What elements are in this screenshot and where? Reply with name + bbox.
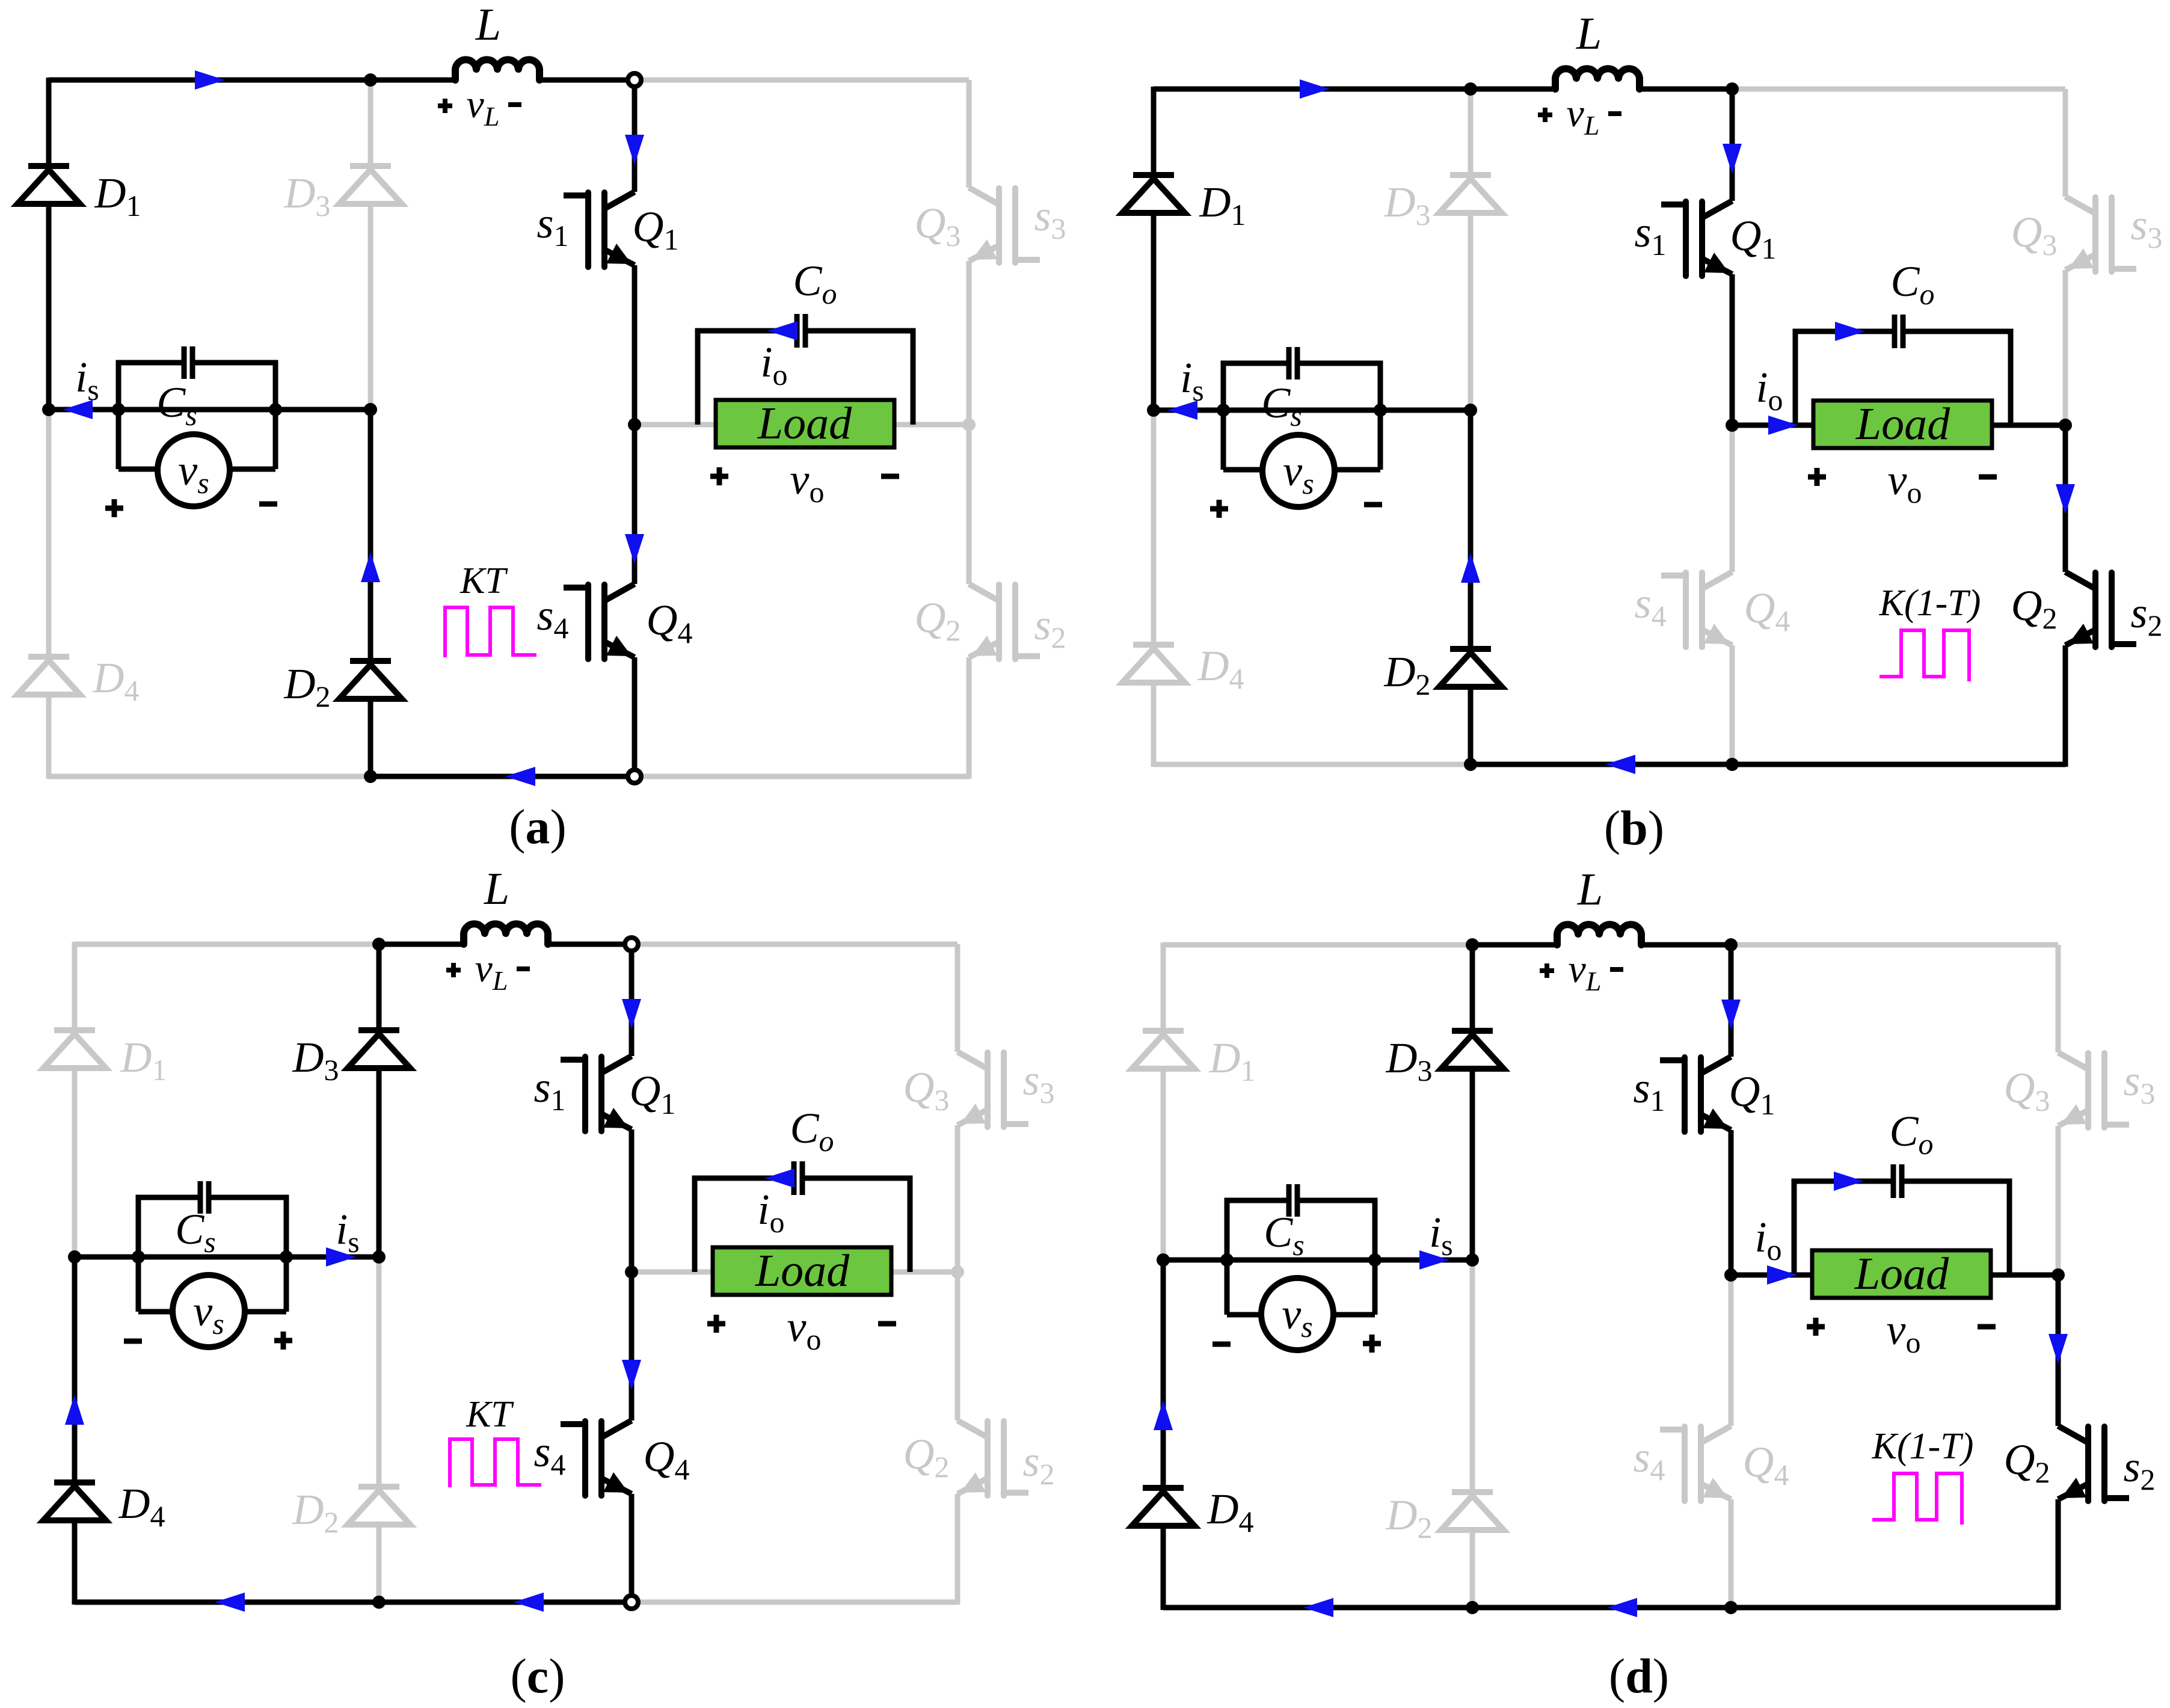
wire Q4-to-bottom (d) xyxy=(1729,1499,1734,1608)
wire mid column lower (d) xyxy=(1470,1260,1475,1492)
current arrow Q4 (c) xyxy=(622,1360,641,1390)
current arrow D4 branch (d) xyxy=(1154,1400,1173,1430)
label minus vo (c) xyxy=(878,1321,896,1327)
wire bottom rail right (b) xyxy=(1471,762,2065,767)
junction node (d) 0 xyxy=(1466,938,1479,951)
wire top-left rail (d) xyxy=(1163,942,1472,948)
label minus (c) xyxy=(124,1339,142,1344)
wire load-node-to-Q4 (b) xyxy=(1730,425,1735,572)
gate waveform KT (c) xyxy=(450,1439,541,1487)
wire top-left rail (c) xyxy=(75,942,379,947)
current arrow Co (b) xyxy=(1835,322,1865,341)
wire right rail mid (a) xyxy=(967,261,972,425)
diode D2 (d) xyxy=(1441,1492,1504,1530)
label plus vo (b) xyxy=(1808,468,1826,486)
svg-text:(d): (d) xyxy=(1609,1648,1669,1703)
wire top-left rail (a) xyxy=(49,78,370,83)
diode D1 (c) xyxy=(43,1030,106,1068)
wire mid column lower (c) xyxy=(377,1257,382,1487)
diode D2 (a) xyxy=(339,661,402,699)
wire inductor-to-Q1 (d) xyxy=(1642,942,1731,948)
svg-text:L: L xyxy=(475,0,501,50)
transistor Q3 (c) xyxy=(957,1052,1025,1127)
capacitor Co loop (b) xyxy=(1795,331,1892,425)
diode D2 (b) xyxy=(1439,649,1502,687)
junction node (d) 4 xyxy=(1466,1253,1479,1267)
svg-text:(b): (b) xyxy=(1604,800,1664,855)
diode D3 (b) xyxy=(1439,175,1502,213)
junction node (d) 2 xyxy=(1220,1253,1234,1267)
current arrow io (a) xyxy=(767,321,798,340)
junction node (c) 7 xyxy=(951,1265,964,1279)
junction node (d) 7 xyxy=(1724,938,1738,951)
svg-text:Load: Load xyxy=(757,398,852,449)
label minus (d) xyxy=(1213,1342,1231,1347)
wire bottom rail left (a) xyxy=(49,774,370,779)
voltage source vs (b) xyxy=(1221,410,1226,470)
current arrow is (c) xyxy=(326,1247,356,1267)
transistor Q4 (a) xyxy=(567,584,635,659)
junction node (d) 3 xyxy=(1368,1253,1382,1267)
svg-text:Load: Load xyxy=(755,1246,850,1296)
gate waveform K(1-T) (b) xyxy=(1880,630,1969,681)
current arrow bottom mid (d) xyxy=(1607,1598,1637,1617)
current arrow bottom mid (c) xyxy=(514,1593,544,1612)
wire source row (b) xyxy=(1154,408,1471,413)
diode D3 (a) xyxy=(339,166,402,204)
wire Q2-to-bottom (d) xyxy=(2056,1499,2061,1610)
voltage source vs (d) xyxy=(1225,1260,1230,1315)
wire Q4-to-bottom (a) xyxy=(632,657,638,776)
svg-text:KT: KT xyxy=(460,561,508,601)
diode D1 (d) xyxy=(1132,1031,1194,1069)
wire top-right rail (d) xyxy=(1731,942,2058,948)
transistor Q2 (a) xyxy=(969,584,1037,659)
junction node (a) 7 xyxy=(962,418,976,431)
current arrow io (b) xyxy=(1768,416,1798,435)
junction node (c) 3 xyxy=(280,1250,293,1264)
transistor Q3 (d) xyxy=(2058,1052,2126,1128)
current arrow Q1 (c) xyxy=(622,999,641,1029)
junction node (b) 5 xyxy=(1464,758,1477,771)
transistor Q4 (c) xyxy=(564,1421,632,1496)
wire left rail upper (a) xyxy=(46,78,52,166)
wire bottom rail left (c) xyxy=(75,1600,632,1605)
junction node (b) 4 xyxy=(1464,404,1477,417)
wire Q4-to-bottom (b) xyxy=(1730,645,1735,764)
current arrow D2 (b) xyxy=(1461,553,1480,583)
wire right rail top (d) xyxy=(2056,945,2061,1052)
wire load right stub (b) xyxy=(1992,423,2065,428)
wire Q1 leg upper (c) xyxy=(629,944,635,1056)
svg-text:(c): (c) xyxy=(510,1648,565,1703)
junction node (b) 9 xyxy=(2059,419,2072,432)
junction node (c) 1 xyxy=(68,1250,81,1264)
junction node (a) 2 xyxy=(112,403,125,416)
gate waveform K(1-T) (d) xyxy=(1872,1473,1962,1525)
label plus (c) xyxy=(274,1332,292,1350)
wire source row (d) xyxy=(1163,1258,1472,1263)
load box (b) xyxy=(1813,401,1992,448)
junction node (b) 6 xyxy=(1726,419,1739,432)
current arrow top rail (a) xyxy=(195,70,225,90)
load box (d) xyxy=(1812,1250,1991,1298)
load box (c) xyxy=(713,1247,891,1295)
wire load left stub (a) xyxy=(635,422,716,428)
current arrow Q4 (a) xyxy=(625,534,644,564)
wire left rail upper (d) xyxy=(1161,942,1166,1031)
wire bottom rail right (c) xyxy=(632,1600,957,1605)
wire Q1-to-load node (d) xyxy=(1729,1130,1734,1275)
current arrow is (d) xyxy=(1419,1250,1449,1270)
wire load-node-to-Q4 (a) xyxy=(632,425,638,584)
wire bottom rail (d) xyxy=(1163,1605,2058,1611)
transistor Q1 (b) xyxy=(1664,201,1732,276)
wire Q1-to-load node (c) xyxy=(629,1129,635,1272)
transistor Q2 (c) xyxy=(957,1421,1025,1496)
open node (c) 1 xyxy=(625,1596,638,1609)
current arrow Q2 (d) xyxy=(2049,1334,2068,1364)
wire source row (a) xyxy=(49,407,370,413)
current arrow bottom left (c) xyxy=(215,1593,245,1612)
junction node (b) 3 xyxy=(1374,404,1387,417)
diode D4 (d) xyxy=(1132,1488,1194,1526)
junction node (b) 8 xyxy=(1726,758,1739,771)
inductor L (a) xyxy=(455,60,539,80)
transistor Q1 (d) xyxy=(1663,1057,1731,1132)
wire Q1 leg upper (a) xyxy=(632,80,638,192)
wire top mid-to-inductor (a) xyxy=(370,78,455,83)
capacitor Co loop (a) xyxy=(698,331,795,425)
transistor Q3 (b) xyxy=(2065,197,2133,272)
inductor L (c) xyxy=(464,924,548,944)
wire left rail lower (b) xyxy=(1151,410,1157,645)
diode D1 (a) xyxy=(17,166,80,204)
wire mid column lower (a) xyxy=(368,410,373,661)
wire load right stub (d) xyxy=(1991,1273,2058,1278)
svg-text:L: L xyxy=(1576,8,1602,59)
current arrow D4 branch (c) xyxy=(65,1395,84,1425)
current arrow is (a) xyxy=(63,400,93,419)
capacitor Co loop (d) xyxy=(1794,1181,1891,1275)
diode D4 (a) xyxy=(17,657,80,695)
wire load-node-to-Q4 (c) xyxy=(629,1272,635,1421)
transistor Q2 (d) xyxy=(2058,1426,2126,1501)
wire top-right rail (c) xyxy=(632,942,957,947)
junction node (d) 9 xyxy=(2052,1268,2065,1282)
wire inductor-to-Q1 (b) xyxy=(1640,87,1732,92)
label minus (b) xyxy=(1364,502,1382,508)
label plus vo (c) xyxy=(707,1315,725,1333)
wire right rail lower (d) xyxy=(2056,1275,2061,1426)
voltage source vs (c) xyxy=(136,1257,141,1312)
wire load-node-to-Q4 (d) xyxy=(1729,1275,1734,1426)
wire Q2-to-bottom (b) xyxy=(2063,645,2068,767)
junction node (a) 0 xyxy=(364,73,377,87)
current arrow bottom mid (a) xyxy=(505,767,535,786)
junction node (a) 6 xyxy=(628,418,641,431)
junction node (c) 5 xyxy=(372,1596,386,1609)
wire top mid-to-inductor (b) xyxy=(1471,87,1555,92)
svg-text:K(1-T): K(1-T) xyxy=(1879,583,1981,624)
wire Q1 leg upper (b) xyxy=(1730,89,1735,201)
wire Q1 leg upper (d) xyxy=(1729,945,1734,1057)
label minus vo (b) xyxy=(1979,475,1997,480)
junction node (a) 4 xyxy=(364,403,377,416)
svg-text:K(1-T): K(1-T) xyxy=(1872,1426,1974,1467)
svg-text:(a): (a) xyxy=(509,799,567,854)
wire mid column lower (b) xyxy=(1468,410,1474,649)
wire right rail lower (c) xyxy=(955,1272,961,1421)
junction node (a) 5 xyxy=(364,770,377,783)
svg-text:KT: KT xyxy=(466,1394,514,1435)
transistor Q4 (b) xyxy=(1664,572,1732,647)
wire bottom rail right (a) xyxy=(635,774,969,779)
wire Q2-to-bottom (a) xyxy=(967,657,972,779)
wire right rail lower (a) xyxy=(967,425,972,584)
wire top-right rail (a) xyxy=(635,78,969,83)
label plus (d) xyxy=(1363,1335,1381,1353)
junction node (c) 6 xyxy=(625,1265,638,1279)
label plus (b) xyxy=(1210,500,1228,518)
label vL (c) xyxy=(446,963,461,977)
junction node (b) 7 xyxy=(1726,82,1739,96)
wire top mid-to-inductor (d) xyxy=(1472,942,1557,948)
current arrow io (d) xyxy=(1767,1265,1797,1285)
label vL (a) xyxy=(438,99,452,113)
wire mid column upper (c) xyxy=(377,944,382,1030)
svg-text:Load: Load xyxy=(1855,399,1950,449)
transistor Q3 (a) xyxy=(969,188,1037,263)
wire left rail upper (c) xyxy=(72,942,78,1030)
diode D4 (b) xyxy=(1122,645,1185,683)
junction node (b) 2 xyxy=(1217,404,1230,417)
junction node (a) 1 xyxy=(42,403,55,416)
load box (a) xyxy=(716,400,894,447)
current arrow io (c) xyxy=(764,1169,795,1188)
diode D3 (d) xyxy=(1441,1031,1504,1069)
current arrow D2 (a) xyxy=(361,552,380,582)
junction node (c) 2 xyxy=(132,1250,145,1264)
capacitor Cs loop (c) xyxy=(138,1197,198,1257)
wire top mid-to-inductor (c) xyxy=(379,942,464,947)
wire right rail mid (b) xyxy=(2063,270,2068,425)
wire right rail top (a) xyxy=(967,80,972,188)
wire bottom rail left (b) xyxy=(1154,762,1471,767)
wire right rail top (c) xyxy=(955,944,961,1052)
wire left rail upper (b) xyxy=(1151,87,1157,175)
diode D1 (b) xyxy=(1122,175,1185,213)
wire Q1-to-load node (a) xyxy=(632,265,638,425)
wire load right stub (a) xyxy=(894,422,969,428)
wire mid column upper (d) xyxy=(1470,945,1475,1031)
junction node (d) 5 xyxy=(1466,1601,1479,1614)
label plus (a) xyxy=(105,499,123,517)
svg-text:L: L xyxy=(1577,864,1603,915)
wire Q1-to-load node (b) xyxy=(1730,274,1735,425)
diode D3 (c) xyxy=(348,1030,410,1068)
wire load left stub (d) xyxy=(1731,1273,1812,1278)
wire source row (c) xyxy=(75,1255,379,1260)
wire top-right rail (b) xyxy=(1732,87,2065,92)
junction node (b) 0 xyxy=(1464,82,1477,96)
junction node (d) 8 xyxy=(1724,1601,1738,1614)
label minus vo (a) xyxy=(881,474,899,479)
current arrow Q1 (a) xyxy=(625,135,644,165)
junction node (b) 1 xyxy=(1147,404,1160,417)
inductor L (b) xyxy=(1555,69,1640,89)
label minus vo (d) xyxy=(1978,1324,1996,1330)
capacitor Cs loop (d) xyxy=(1227,1200,1286,1260)
wire left rail lower (a) xyxy=(46,410,52,657)
wire inductor-to-Q1 (c) xyxy=(549,942,632,947)
current arrow Q2 (b) xyxy=(2056,484,2075,514)
wire load left stub (b) xyxy=(1732,423,1813,428)
svg-text:Load: Load xyxy=(1854,1249,1949,1299)
wire mid column upper (a) xyxy=(368,80,373,166)
wire right rail mid (c) xyxy=(955,1125,961,1272)
open node (a) 0 xyxy=(628,73,641,87)
current arrow bottom left (d) xyxy=(1303,1598,1333,1617)
wire left rail lower (d) xyxy=(1161,1260,1166,1488)
current arrow is (b) xyxy=(1167,401,1197,420)
wire mid column upper (b) xyxy=(1468,89,1474,175)
wire left rail lower (c) xyxy=(72,1257,78,1482)
current arrow Q1 (d) xyxy=(1721,1000,1741,1030)
wire load right stub (c) xyxy=(891,1270,957,1275)
current arrow Q1 (b) xyxy=(1723,144,1742,174)
wire right rail top (b) xyxy=(2063,89,2068,197)
open node (c) 0 xyxy=(625,938,638,951)
junction node (a) 3 xyxy=(269,403,282,416)
wire inductor-to-Q1 (a) xyxy=(540,78,635,83)
diode D4 (c) xyxy=(43,1482,106,1520)
junction node (d) 1 xyxy=(1157,1253,1170,1267)
open node (a) 1 xyxy=(628,770,641,783)
gate waveform KT (a) xyxy=(445,607,536,657)
wire Q4-to-bottom (c) xyxy=(629,1494,635,1602)
junction node (d) 6 xyxy=(1724,1268,1738,1282)
wire Q2-to-bottom (c) xyxy=(955,1494,961,1605)
capacitor Co loop (c) xyxy=(695,1178,791,1272)
voltage source vs (a) xyxy=(116,410,121,469)
current arrow top rail (b) xyxy=(1300,79,1330,99)
wire right rail lower (b) xyxy=(2063,425,2068,572)
capacitor Cs loop (b) xyxy=(1223,363,1286,410)
inductor L (d) xyxy=(1557,924,1641,945)
label plus vo (a) xyxy=(710,467,728,485)
capacitor Cs loop (a) xyxy=(118,363,182,410)
current arrow bottom mid (b) xyxy=(1605,755,1635,774)
wire load left stub (c) xyxy=(632,1270,713,1275)
label vL (d) xyxy=(1540,963,1554,978)
transistor Q1 (c) xyxy=(564,1056,632,1131)
label minus (a) xyxy=(259,502,277,507)
junction node (c) 4 xyxy=(372,1250,386,1264)
wire bottom rail mid (a) xyxy=(370,774,635,779)
transistor Q4 (d) xyxy=(1663,1426,1731,1501)
diode D2 (c) xyxy=(348,1487,410,1525)
label vL (b) xyxy=(1538,108,1552,122)
svg-text:L: L xyxy=(484,864,509,914)
transistor Q1 (a) xyxy=(567,192,635,267)
current arrow Co (d) xyxy=(1834,1172,1864,1191)
junction node (c) 0 xyxy=(372,938,386,951)
wire right rail mid (d) xyxy=(2056,1126,2061,1275)
label plus vo (d) xyxy=(1807,1318,1825,1336)
wire top-left rail (b) xyxy=(1154,87,1471,92)
transistor Q2 (b) xyxy=(2065,572,2133,647)
